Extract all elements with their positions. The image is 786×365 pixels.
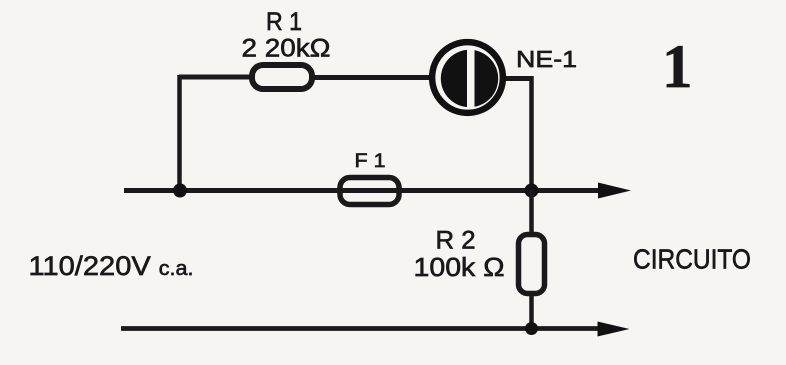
svg-text:CIRCUITO: CIRCUITO bbox=[633, 244, 751, 275]
neon lamp NE-1 outer circle bbox=[432, 42, 503, 113]
svg-text:R 2: R 2 bbox=[436, 227, 476, 255]
value 220k ohm bbox=[242, 35, 331, 63]
junction node on bottom wire bbox=[525, 322, 538, 335]
svg-text:F 1: F 1 bbox=[355, 151, 386, 172]
figure number 1 bbox=[662, 34, 693, 101]
junction node left on middle wire bbox=[173, 184, 187, 198]
arrowhead bottom wire bbox=[598, 322, 630, 337]
middle wire (line 1 of mains) bbox=[124, 188, 600, 193]
label NE-1 bbox=[516, 46, 577, 72]
label CIRCUITO bbox=[633, 244, 751, 275]
junction node right on middle wire bbox=[525, 184, 539, 198]
wire top-left horizontal from corner to R1 bbox=[179, 75, 250, 80]
wire neon lamp to right corner bbox=[499, 76, 532, 81]
wire R1 to neon lamp bbox=[314, 75, 437, 80]
label F1 bbox=[355, 151, 386, 172]
bottom wire (line 2 of mains) bbox=[121, 326, 600, 331]
svg-text:110/220V c.a.: 110/220V c.a. bbox=[29, 251, 194, 281]
label R1 bbox=[266, 8, 302, 36]
wire left vertical drop to middle line bbox=[177, 75, 182, 190]
resistor R2 body bbox=[519, 235, 545, 294]
wire right vertical from lamp corner down to middle line bbox=[529, 76, 534, 190]
resistor R1 body bbox=[252, 65, 312, 89]
svg-text:NE-1: NE-1 bbox=[516, 46, 577, 72]
svg-text:2 20kΩ: 2 20kΩ bbox=[242, 35, 331, 63]
svg-text:1: 1 bbox=[662, 34, 693, 101]
label 110/220V c.a. bbox=[29, 251, 194, 281]
svg-text:R 1: R 1 bbox=[266, 8, 302, 36]
label R2 bbox=[436, 227, 476, 255]
wire middle junction down to R2 bbox=[529, 190, 534, 236]
arrowhead middle wire bbox=[598, 183, 631, 199]
fuse F1 body bbox=[340, 178, 399, 205]
wire R2 down to bottom line bbox=[529, 292, 534, 328]
value 100k ohm bbox=[414, 252, 505, 282]
neon lamp inner electrodes (filled disk with vertical gap) bbox=[441, 48, 498, 109]
svg-text:100k Ω: 100k Ω bbox=[414, 252, 505, 282]
